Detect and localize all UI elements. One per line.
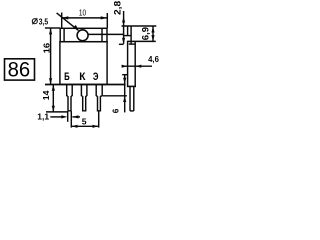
side pin (129, 86, 131, 111)
pin3 extension (98, 111, 100, 128)
svg-text:6,9: 6,9 (140, 27, 150, 40)
dim 2,8: line and stub (123, 11, 125, 44)
svg-text:10: 10 (79, 7, 86, 17)
svg-text:14: 14 (42, 90, 51, 100)
dim 6 arrows (123, 78, 126, 84)
pin 2 narrow part (83, 96, 86, 111)
dim 16: dimension line (50, 28, 52, 84)
svg-text:1,1: 1,1 (37, 112, 49, 122)
dim 10 arrows (62, 16, 68, 19)
tab (front view mounting flange) (60, 28, 107, 41)
side view left edge (body part) (127, 41, 129, 87)
dim 6,9 arrows (151, 27, 154, 33)
hole mid projection line to side view (88, 33, 123, 35)
dim 16 arrows (49, 28, 52, 34)
dim 16: top extension (45, 27, 60, 29)
dim 5: dimension line (71, 125, 98, 127)
side body bottom (127, 85, 136, 87)
pin end extension line (46, 111, 68, 113)
pin 3 wide part (95, 84, 97, 96)
dim 4,6: line (122, 65, 152, 67)
dim 6,9: line (152, 26, 154, 41)
plate right / head left edge (130, 26, 132, 44)
side view head bottom (127, 40, 155, 42)
svg-text:16: 16 (43, 42, 52, 53)
arrowheads (49, 16, 155, 128)
pin step extension to dim 6 (103, 95, 127, 97)
texts (37, 1, 159, 127)
tab inner line left (63, 28, 65, 41)
side view left edge (plate part) (127, 26, 129, 36)
dim 1,1 arrows (outside) (61, 115, 67, 118)
dim 10: extension lines (61, 13, 63, 29)
svg-text:Б: Б (64, 71, 70, 83)
plate bottom stub (124, 35, 132, 37)
dim 4,6 arrows (outside) (122, 65, 128, 68)
dim 10: dimension line (62, 17, 108, 19)
svg-text:2,8: 2,8 (112, 1, 122, 15)
pin1 edge extensions (67, 111, 69, 122)
86 box (5, 59, 35, 80)
dim 14 arrows (52, 85, 55, 91)
dim 6: tick and line (122, 74, 127, 76)
svg-text:Э: Э (93, 71, 99, 83)
dim 5 arrows (71, 125, 77, 128)
pin 3 narrow part (98, 96, 101, 111)
pin 2 wide part (80, 84, 82, 96)
mounting hole (77, 30, 88, 41)
body bottom line with extensions (45, 84, 126, 86)
pin labels (64, 71, 99, 83)
svg-text:3,5: 3,5 (39, 16, 49, 26)
pin 1 wide part (66, 84, 68, 96)
svg-text:5: 5 (82, 117, 87, 127)
diameter symbol of 3,5 (32, 18, 37, 24)
leader arrow to hole (74, 25, 80, 31)
side view step line (129, 43, 136, 45)
side body right edge (134, 41, 136, 86)
dim 1,1: lines (50, 116, 62, 118)
pin 1 narrow part (68, 96, 71, 111)
svg-text:6: 6 (112, 108, 121, 113)
svg-text:86: 86 (8, 58, 31, 82)
body (front view) (60, 42, 107, 85)
side view top line (122, 25, 157, 27)
dim 14: dimension line (52, 85, 54, 112)
svg-text:4,6: 4,6 (148, 54, 159, 64)
dia 3,5 leader line (57, 13, 78, 30)
tab inner line right (101, 28, 103, 41)
dim 2,8 arrows (122, 17, 125, 23)
svg-text:К: К (79, 71, 86, 83)
